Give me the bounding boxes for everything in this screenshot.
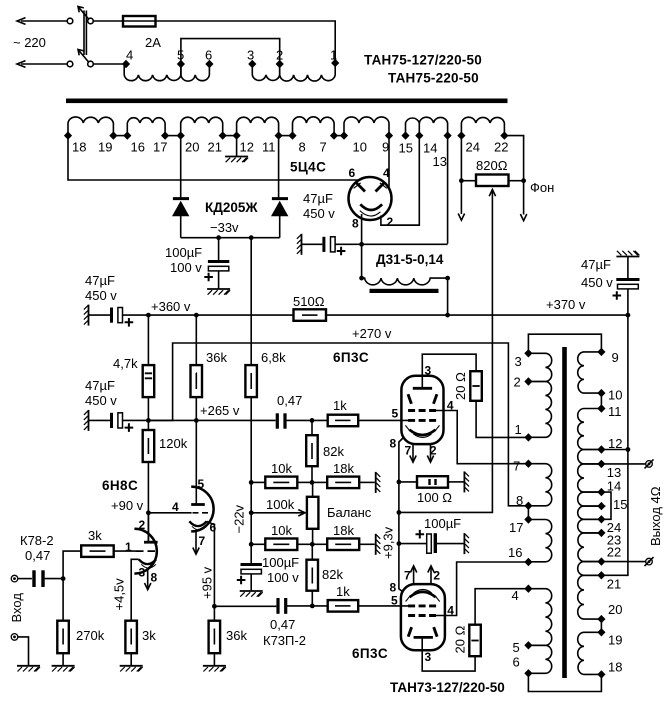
svg-text:3: 3 bbox=[139, 566, 146, 580]
wire pin22 right and down to pot junction bbox=[504, 136, 523, 215]
wire terminal to C7 bbox=[18, 578, 32, 580]
wire +370 down to output transformer pin 12 bbox=[627, 315, 629, 449]
R13 body bbox=[265, 539, 297, 551]
input terminal 2 bbox=[11, 634, 18, 641]
svg-text:6: 6 bbox=[349, 166, 356, 180]
resistor R22 20 Ohm (lower anode) body bbox=[469, 625, 481, 657]
diode VD2 cathode bar bbox=[272, 197, 288, 200]
V3 control grid dashes (pin 5 row) bbox=[408, 419, 436, 422]
arrow on pin24 heater line bbox=[458, 214, 464, 221]
balance pot R12 100k wiper wire bbox=[251, 512, 304, 514]
svg-text:1: 1 bbox=[125, 540, 132, 554]
V2a plate bar bbox=[144, 541, 158, 544]
V2a cathode arc bbox=[139, 559, 156, 564]
V2a grid dashes bbox=[136, 550, 155, 552]
switch SA1 blade 1 arrowhead bbox=[78, 7, 84, 13]
R21 body bbox=[417, 476, 448, 488]
node dot cathode wiper bbox=[397, 510, 402, 515]
V3 beam plate right bbox=[434, 394, 437, 404]
R10 lead bottom bbox=[311, 466, 313, 482]
V4 beam thin line left bbox=[406, 596, 410, 601]
R9 body bbox=[143, 430, 155, 462]
node dot balance bottom bbox=[310, 542, 315, 547]
capacitor C9 100uF 100v plate positive bbox=[241, 563, 262, 566]
mains terminal circle 2 bbox=[67, 61, 73, 67]
resistor R1 3k body (grid) bbox=[81, 545, 114, 557]
fuse FU1 2A bbox=[123, 16, 156, 27]
C4 chassis wall bbox=[84, 410, 89, 431]
R14 wire to grid pin5 bbox=[358, 419, 408, 421]
C4 wire wall to plate bbox=[89, 419, 111, 421]
switch SA1 mechanical link bbox=[84, 11, 86, 56]
wire pins17-20 junction down to diode VD1 bbox=[180, 136, 182, 199]
svg-text:9: 9 bbox=[612, 350, 619, 365]
wire pin14 down and left to 5Ts4S pin 2 bbox=[381, 136, 419, 226]
svg-text:47µF: 47µF bbox=[581, 257, 611, 272]
R9 inner dash bbox=[147, 438, 149, 454]
T2 right winding 19-18 bbox=[578, 632, 602, 674]
V3 heater pin 7 arrowhead bbox=[410, 456, 416, 463]
svg-text:100 v: 100 v bbox=[170, 260, 202, 275]
T2 right winding 24-23 bbox=[578, 519, 602, 533]
R16 inner dash bbox=[335, 543, 351, 545]
primary pin 5 diamond bbox=[177, 60, 185, 68]
chassis wall upper 18k bbox=[376, 472, 381, 493]
svg-text:6: 6 bbox=[513, 655, 520, 670]
svg-text:19: 19 bbox=[98, 140, 112, 155]
svg-text:10k: 10k bbox=[271, 523, 292, 538]
svg-text:2: 2 bbox=[139, 518, 146, 532]
R15 wire to wall bbox=[359, 481, 375, 483]
secondary pin diamonds bbox=[64, 131, 72, 139]
C10 wire to node bbox=[287, 605, 328, 607]
svg-text:К73П-2: К73П-2 bbox=[263, 633, 306, 648]
R8 body bbox=[245, 365, 257, 397]
svg-text:7: 7 bbox=[404, 569, 411, 583]
T2 jumper 14-24 bracket bbox=[601, 492, 611, 519]
V4 screen wire to OT pin 16 bbox=[436, 562, 528, 616]
ground under C9 bbox=[240, 591, 263, 597]
node dot +90v bbox=[146, 510, 151, 515]
wire pin24 down to pot junction bbox=[460, 136, 462, 214]
transformer T1 core bar bbox=[66, 99, 508, 104]
svg-text:+4,5v: +4,5v bbox=[112, 578, 127, 611]
tube V4 6P3S lower envelope bbox=[401, 584, 445, 650]
svg-text:3k: 3k bbox=[142, 628, 156, 643]
R6 lead bottom bbox=[147, 397, 149, 420]
svg-text:6П3С: 6П3С bbox=[333, 350, 369, 365]
V3 plate bar bbox=[413, 387, 432, 390]
svg-text:0,47: 0,47 bbox=[270, 617, 295, 632]
node dot balance top bbox=[310, 480, 315, 485]
V4 beam plate right bbox=[434, 627, 437, 637]
V2b plate riser to 36k bottom bbox=[195, 420, 197, 504]
V1 cathode thick arc bbox=[360, 204, 382, 210]
svg-text:7: 7 bbox=[513, 459, 520, 474]
R17 right lead bbox=[509, 180, 524, 182]
choke L1 left lead bbox=[361, 244, 363, 278]
C2 plate positive bbox=[208, 260, 229, 263]
T2 left winding 7-8 bbox=[528, 464, 551, 506]
svg-text:К78-2: К78-2 bbox=[20, 533, 54, 548]
wire terminal 2 to ground bbox=[18, 637, 29, 666]
R7 body bbox=[191, 365, 203, 397]
T2 bridge pin3 to pin9 bbox=[528, 334, 601, 353]
mains line 1 wire bbox=[21, 20, 67, 22]
resistor R4 36k lead bbox=[213, 606, 215, 620]
svg-text:450 v: 450 v bbox=[303, 206, 335, 221]
output terminal 1 slash bbox=[645, 459, 654, 468]
V2a heater arrow pin 8 bbox=[147, 569, 149, 589]
svg-text:8: 8 bbox=[299, 140, 306, 155]
diode VD1 anode wire bbox=[180, 216, 182, 238]
T2 right winding 13-14 bbox=[578, 464, 602, 492]
V1 anode pin6 thin lead bbox=[354, 183, 361, 188]
switch SA1 blade 2 bbox=[78, 50, 89, 63]
V2b heater arrow pin 7 bbox=[195, 532, 197, 553]
svg-text:100k: 100k bbox=[266, 497, 295, 512]
svg-text:15: 15 bbox=[613, 497, 627, 512]
capacitor C10 0,47 K73P-2 plate left bbox=[276, 598, 279, 614]
svg-text:22: 22 bbox=[607, 545, 621, 560]
V2b cathode arc bbox=[189, 521, 206, 526]
T1 secondary winding 20-21 bbox=[181, 117, 223, 132]
C9 lead to ground bbox=[250, 574, 252, 591]
svg-text:820Ω: 820Ω bbox=[476, 158, 508, 173]
svg-text:47µF: 47µF bbox=[85, 273, 115, 288]
svg-text:0,47: 0,47 bbox=[277, 393, 302, 408]
V2a plate riser to +90 node bbox=[147, 513, 149, 542]
svg-text:10k: 10k bbox=[271, 461, 292, 476]
node dot +370 cap bbox=[626, 313, 631, 318]
svg-text:13: 13 bbox=[433, 154, 447, 169]
C1 plate positive hollow bbox=[118, 308, 123, 323]
svg-text:450 v: 450 v bbox=[85, 393, 117, 408]
C11 plate solid bbox=[434, 533, 437, 553]
svg-text:ТАН75-127/220-50: ТАН75-127/220-50 bbox=[364, 53, 482, 68]
V2b plate bar bbox=[191, 503, 205, 506]
V4 heater pin 2 line bbox=[430, 567, 432, 584]
R11 body bbox=[265, 477, 297, 489]
V3 heater pin 7 line bbox=[412, 444, 414, 460]
svg-text:1k: 1k bbox=[333, 398, 347, 413]
svg-text:450 v: 450 v bbox=[581, 275, 613, 290]
svg-text:КД205Ж: КД205Ж bbox=[205, 200, 258, 215]
svg-text:47µF: 47µF bbox=[303, 191, 333, 206]
svg-text:2: 2 bbox=[430, 444, 437, 458]
C11 wire left bbox=[399, 543, 427, 545]
svg-text:Вход: Вход bbox=[9, 593, 24, 623]
resistor R8 6.8k lead top from -33v bbox=[250, 238, 252, 365]
R16 wire to wall bbox=[359, 543, 375, 545]
V2b heater arrowhead bbox=[193, 548, 199, 555]
T2 left winding 17-16 bbox=[528, 520, 551, 562]
node dot -22 bottom bbox=[249, 542, 254, 547]
wire pin13 down to cathode line bbox=[447, 136, 449, 244]
jumper 19-16 bbox=[113, 135, 127, 137]
ground under terminal 2 bbox=[17, 666, 40, 672]
V2b cathode thin arc bbox=[192, 526, 207, 530]
svg-text:1: 1 bbox=[330, 48, 337, 63]
svg-text:0,47: 0,47 bbox=[25, 548, 50, 563]
C11 wire to wall bbox=[437, 543, 464, 545]
node dot -33v to 6.8k feed bbox=[249, 235, 254, 240]
jumper 21-12 bbox=[223, 135, 237, 137]
svg-text:6: 6 bbox=[205, 48, 212, 63]
tube V2a 6N8S triode 1 envelope arc bbox=[134, 529, 156, 574]
capacitor C11 100uF plus sign bbox=[416, 530, 425, 539]
chassis wall lower 18k bbox=[376, 534, 381, 555]
tube V3 6P3S upper envelope bbox=[401, 376, 443, 444]
svg-text:20 Ω: 20 Ω bbox=[453, 372, 468, 400]
node dot lower grid network bbox=[310, 604, 315, 609]
R4 inner dash bbox=[213, 629, 215, 645]
svg-text:−22v: −22v bbox=[232, 504, 247, 533]
svg-text:9: 9 bbox=[382, 140, 389, 155]
R8 lead bottom to -22 bus bbox=[250, 397, 252, 482]
svg-text:5: 5 bbox=[177, 48, 184, 63]
svg-text:~ 220: ~ 220 bbox=[13, 35, 46, 50]
R20 inner dash bbox=[472, 385, 479, 387]
T2 right winding 12-13 bbox=[578, 450, 602, 464]
R19 wire to grid pin5 lower tube bbox=[358, 605, 408, 607]
resistor R16 18k (lower) body bbox=[327, 539, 359, 551]
svg-text:19: 19 bbox=[608, 633, 622, 648]
node dot 4.7k top bbox=[146, 313, 151, 318]
jumper 7-10 bbox=[334, 135, 344, 137]
R21 inner marks bbox=[430, 479, 436, 485]
V1 anode pin4 thin lead bbox=[380, 183, 387, 188]
R18 inner dash bbox=[311, 568, 313, 584]
T2 left winding 2-1 bbox=[528, 382, 551, 438]
fuse wire through bbox=[123, 20, 156, 22]
wire pin22 to output terminal 2 bbox=[601, 561, 645, 563]
T2 right winding 21-20 bbox=[578, 575, 602, 619]
mains arrow 2 bbox=[17, 61, 26, 68]
wire node up to 3k grid resistor bbox=[63, 551, 81, 579]
resistor R10 82k (upper) lead bbox=[311, 420, 313, 435]
V2a cathode wire to 3k bbox=[131, 559, 139, 620]
svg-text:6П3С: 6П3С bbox=[352, 646, 388, 661]
node dot input bbox=[61, 576, 66, 581]
svg-text:510Ω: 510Ω bbox=[293, 294, 325, 309]
svg-text:100 v: 100 v bbox=[267, 570, 299, 585]
node dot 36k top bbox=[194, 313, 199, 318]
C5 lead from ground bbox=[627, 257, 629, 279]
transformer T1 primary winding 2-1 bbox=[280, 65, 335, 82]
choke L1 winding bbox=[362, 278, 448, 285]
R18 body bbox=[307, 560, 319, 591]
jumper 17-20 bbox=[165, 135, 181, 137]
wire +370 riser down to pin 21 bbox=[601, 450, 628, 576]
svg-text:270k: 270k bbox=[76, 628, 105, 643]
node dot -33v cap bbox=[216, 235, 221, 240]
svg-text:11: 11 bbox=[608, 404, 622, 419]
C5 plate negative solid bbox=[616, 278, 639, 281]
V2b grid dashes bbox=[193, 512, 209, 514]
svg-text:18: 18 bbox=[72, 140, 86, 155]
T2 left winding 5-6 bbox=[528, 645, 551, 673]
V4 beam plate left bbox=[408, 627, 411, 637]
svg-text:100µF: 100µF bbox=[165, 245, 202, 260]
svg-text:Выход 4Ω: Выход 4Ω bbox=[648, 486, 663, 546]
R22 lead to OT pin 4 bbox=[475, 589, 528, 625]
svg-text:4: 4 bbox=[383, 166, 390, 180]
C3 plate positive hollow bbox=[331, 237, 336, 252]
V4 heater pin 7 line bbox=[413, 567, 415, 584]
svg-text:82k: 82k bbox=[323, 444, 344, 459]
+95 line to coupling cap C10 bbox=[214, 605, 276, 607]
switch SA1 blade 1 bbox=[78, 7, 89, 20]
node dot +95v bbox=[212, 604, 217, 609]
diode VD1 triangle bbox=[172, 201, 189, 217]
switch SA1 blade 2 arrowhead bbox=[78, 50, 84, 56]
C6 plate right bbox=[283, 413, 286, 428]
cathode bus of output tubes bbox=[399, 482, 403, 592]
resistor R14 1k body (upper grid stopper) bbox=[328, 415, 359, 427]
T2 pin 15 stub bbox=[601, 505, 605, 507]
svg-text:+9,3v: +9,3v bbox=[381, 526, 396, 559]
V4 control grid dashes (pin 5 row) bbox=[408, 604, 436, 607]
choke L1 node dot right bbox=[445, 276, 450, 281]
svg-text:3: 3 bbox=[247, 48, 254, 63]
T2 right winding 14-15 bbox=[578, 492, 602, 506]
svg-text:+370 v: +370 v bbox=[546, 297, 586, 312]
svg-text:18k: 18k bbox=[333, 461, 354, 476]
primary pin 2 diamond bbox=[276, 60, 284, 68]
rectifier tube V1 5Ts4S envelope bbox=[349, 177, 392, 220]
node dot -22 top bbox=[249, 480, 254, 485]
svg-text:7: 7 bbox=[320, 140, 327, 155]
V3 beam thin line right bbox=[435, 425, 439, 430]
svg-text:1: 1 bbox=[515, 422, 522, 437]
R10 inner dash bbox=[311, 443, 313, 459]
C3 chassis wall bbox=[297, 234, 302, 255]
svg-text:6Н8С: 6Н8С bbox=[102, 478, 138, 493]
C6 wire to 1k node bbox=[286, 419, 328, 421]
T2 right winding 22-21 bbox=[578, 562, 602, 576]
svg-text:5: 5 bbox=[391, 594, 398, 608]
svg-text:10: 10 bbox=[353, 140, 367, 155]
switch SA1 pole 2 circle bbox=[88, 61, 94, 67]
svg-text:+95 v: +95 v bbox=[200, 566, 215, 599]
jumper 11-8 bbox=[279, 135, 293, 137]
C4 plate positive hollow bbox=[118, 413, 123, 428]
+360/+370 rail bbox=[122, 314, 628, 316]
node dot cathode cap bbox=[397, 541, 402, 546]
svg-text:6: 6 bbox=[210, 521, 217, 535]
resistor R6 4.7k lead top bbox=[147, 315, 149, 365]
ground under R3 bbox=[120, 666, 143, 672]
svg-text:16: 16 bbox=[508, 545, 522, 560]
resistor R9 120k lead top bbox=[147, 420, 149, 430]
R1 inner dash bbox=[90, 550, 106, 552]
V2a grid wire from 3k bbox=[114, 550, 136, 552]
T2 left winding 3-2 bbox=[528, 353, 551, 381]
svg-text:4,7k: 4,7k bbox=[113, 356, 138, 371]
wire fuse to pin 1 bbox=[156, 21, 336, 61]
V4 heater pin 7 arrowhead bbox=[410, 566, 416, 573]
V4 screen grid dashes (pin 4 row) bbox=[408, 614, 436, 617]
wire switch to fuse bbox=[93, 20, 123, 22]
svg-text:20: 20 bbox=[185, 140, 199, 155]
svg-text:14: 14 bbox=[607, 479, 621, 494]
diode VD2 anode wire bbox=[279, 216, 281, 238]
C1 plate negative solid bbox=[110, 308, 113, 323]
svg-text:21: 21 bbox=[607, 577, 621, 592]
V3 beam plate left bbox=[408, 394, 411, 404]
output transformer T2 core bar bbox=[562, 347, 567, 678]
C3 plate negative solid bbox=[322, 237, 325, 252]
R17 left lead bbox=[461, 180, 476, 182]
C5 lead to rail bbox=[627, 289, 629, 315]
svg-text:18: 18 bbox=[608, 660, 622, 675]
R11 inner dash bbox=[273, 481, 289, 483]
C5 plus sign bbox=[613, 291, 622, 300]
R9 lead bottom to +90 node bbox=[147, 462, 149, 542]
C7 wire to node bbox=[45, 578, 64, 580]
resistor R19 1k body (lower grid stopper) bbox=[328, 600, 359, 612]
svg-text:+90 v: +90 v bbox=[111, 498, 144, 513]
C3 wire to cathode node bbox=[335, 243, 448, 245]
C5 plate positive hollow bbox=[618, 284, 639, 289]
chassis wall 100 Ohm bbox=[464, 471, 469, 492]
+270 rail riser from +265 node bbox=[148, 343, 528, 506]
T1 secondary winding 24-22 bbox=[461, 117, 504, 132]
primary pin 4 diamond bbox=[122, 60, 130, 68]
T2 right winding 15-24 bbox=[578, 506, 602, 519]
R6 inner dashes bbox=[145, 373, 152, 378]
R4 lead to ground bbox=[213, 653, 215, 666]
R13 wire right bbox=[297, 543, 312, 545]
node dot 36k bottom / plate5 bbox=[194, 418, 199, 423]
node dot cathode 100ohm bbox=[397, 480, 402, 485]
svg-text:8: 8 bbox=[151, 571, 158, 585]
R12 lead top bbox=[312, 482, 314, 496]
svg-text:10: 10 bbox=[608, 388, 622, 403]
C5 top ground (inverted) bbox=[616, 251, 639, 257]
svg-text:+265 v: +265 v bbox=[200, 403, 240, 418]
svg-text:450 v: 450 v bbox=[85, 288, 117, 303]
svg-text:8: 8 bbox=[390, 437, 397, 451]
transformer T1 primary winding 3-2 bbox=[252, 65, 279, 81]
C7 plate right bbox=[41, 570, 44, 587]
wire pins11-8 junction down to diode VD2 bbox=[278, 136, 280, 199]
svg-text:24: 24 bbox=[466, 140, 480, 155]
R7 lead bottom bbox=[195, 397, 197, 420]
ground under R4 bbox=[203, 666, 226, 672]
R8 inner dash bbox=[250, 373, 252, 389]
resistor R18 82k (lower) lead top bbox=[311, 544, 313, 559]
V1 pin8 cathode wire down bbox=[361, 214, 363, 244]
R10 body bbox=[306, 435, 318, 466]
V1 anode pin6 plate stroke bbox=[356, 183, 365, 192]
svg-text:1k: 1k bbox=[336, 584, 350, 599]
node dot pot right bbox=[521, 178, 526, 183]
C1 chassis wall bbox=[84, 305, 89, 326]
svg-text:4: 4 bbox=[512, 588, 519, 603]
wire pin12 to +370 riser bbox=[601, 449, 628, 451]
V3 heater pin 2 arrowhead bbox=[427, 456, 433, 463]
svg-text:2A: 2A bbox=[145, 35, 161, 50]
svg-text:4: 4 bbox=[447, 604, 454, 618]
resistor R3 3k body (cathode) bbox=[125, 621, 136, 654]
R3 lead to ground bbox=[130, 653, 132, 666]
capacitor C2 100uF 100v lead bbox=[218, 238, 220, 260]
R15 inner dash bbox=[335, 481, 351, 483]
T1 secondary winding 18-19 bbox=[68, 117, 113, 133]
R11 wire right bbox=[297, 481, 312, 483]
